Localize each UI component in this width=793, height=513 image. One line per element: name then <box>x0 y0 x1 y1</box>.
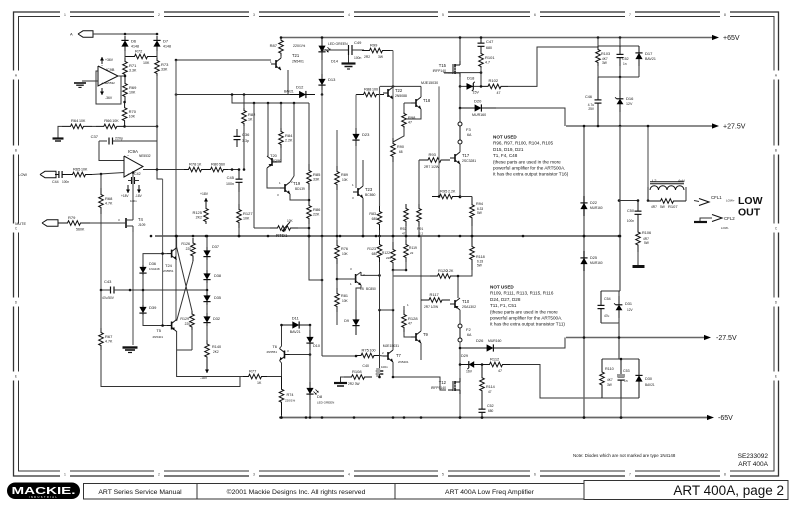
svg-text:(these parts are used in the m: (these parts are used in the more <box>490 309 558 314</box>
svg-text:100: 100 <box>372 87 378 91</box>
svg-text:D22: D22 <box>590 201 597 205</box>
svg-text:220: 220 <box>185 322 191 326</box>
svg-text:4uH: 4uH <box>678 179 685 183</box>
svg-text:T11, F1, C51: T11, F1, C51 <box>490 303 517 308</box>
svg-text:680: 680 <box>488 409 494 413</box>
svg-text:C52: C52 <box>487 404 494 408</box>
capacitor C46 <box>597 77 599 100</box>
svg-text:R94: R94 <box>476 202 483 206</box>
title block: copyright <box>197 484 395 500</box>
transistor T20 <box>271 158 273 166</box>
LED D14 <box>321 38 323 61</box>
svg-text:R90: R90 <box>397 145 404 149</box>
wire to +27.5 <box>508 47 598 86</box>
wire R118 to T10 emitter <box>458 270 472 276</box>
resistor R87 <box>279 38 284 57</box>
resistor R107 <box>648 199 686 204</box>
svg-text:D38: D38 <box>214 274 221 278</box>
wire T7 emitter <box>393 362 446 390</box>
cross wire A <box>177 247 192 311</box>
wire T18 emitter <box>406 109 421 119</box>
svg-text:T15: T15 <box>439 63 447 68</box>
svg-text:R102: R102 <box>489 78 499 83</box>
left bus <box>100 214 102 290</box>
svg-text:D15, D19, D21: D15, D19, D21 <box>493 147 524 152</box>
svg-text:-36V: -36V <box>105 96 113 100</box>
op-amp IC9A <box>124 156 143 177</box>
svg-text:R110: R110 <box>605 367 614 371</box>
bus to -27.5 region <box>583 336 586 339</box>
+65V rail <box>281 37 712 39</box>
-18V arrow <box>206 361 208 373</box>
svg-text:68: 68 <box>399 150 403 154</box>
svg-text:D26: D26 <box>476 338 484 343</box>
diode D39 <box>142 305 144 315</box>
svg-text:10K: 10K <box>143 61 150 65</box>
svg-text:R127: R127 <box>243 211 253 216</box>
wire T6 collector <box>280 325 282 349</box>
transistor T21 <box>275 60 277 68</box>
svg-text:R75: R75 <box>362 347 370 352</box>
svg-text:R71: R71 <box>129 63 137 68</box>
svg-text:10K: 10K <box>81 167 88 171</box>
svg-text:22: 22 <box>410 251 414 255</box>
svg-text:R76: R76 <box>341 247 348 251</box>
resistor R117 <box>421 298 450 303</box>
svg-text:MUR160: MUR160 <box>472 113 486 117</box>
bus crossings <box>175 235 177 237</box>
wire R73 column down <box>156 76 158 126</box>
resistor R102 <box>481 84 508 89</box>
resistor R129 <box>190 311 195 330</box>
svg-text:T18: T18 <box>423 98 431 103</box>
svg-text:C54: C54 <box>604 297 611 301</box>
svg-text:R68: R68 <box>105 196 113 201</box>
resistor R91 <box>417 204 422 226</box>
svg-text:BAV21: BAV21 <box>645 57 656 61</box>
svg-text:1: 1 <box>64 473 66 477</box>
svg-text:10K: 10K <box>129 115 136 119</box>
wire to CFL1 <box>694 201 699 202</box>
svg-text:4: 4 <box>348 13 350 17</box>
resistor R106 <box>636 225 641 252</box>
resistor R69 <box>123 78 128 102</box>
svg-text:16V: 16V <box>466 370 473 374</box>
wire <box>93 33 157 35</box>
svg-text:R73: R73 <box>161 62 169 67</box>
svg-text:R99: R99 <box>370 42 378 47</box>
transistor T5 <box>171 322 173 330</box>
svg-text:It has the extra output transi: It has the extra output transistor T16) <box>493 172 569 177</box>
svg-text:12V: 12V <box>626 102 633 106</box>
svg-text:T9: T9 <box>423 332 429 337</box>
svg-text:BC850: BC850 <box>366 287 376 291</box>
bus <box>336 130 338 166</box>
svg-text:INDUSTRIAL: INDUSTRIAL <box>29 495 58 499</box>
svg-text:2R2: 2R2 <box>364 55 370 59</box>
svg-text:6A: 6A <box>467 133 472 137</box>
svg-text:C46: C46 <box>585 95 592 99</box>
trimmer RTD1 <box>254 227 270 229</box>
svg-text:C50: C50 <box>627 209 634 213</box>
svg-text:R108: R108 <box>352 369 362 374</box>
svg-text:2K2: 2K2 <box>213 350 219 354</box>
svg-text:1n: 1n <box>624 379 628 383</box>
svg-text:T21: T21 <box>292 53 300 58</box>
svg-text:F2: F2 <box>466 327 471 332</box>
resistor R83 <box>379 86 381 206</box>
svg-text:33K: 33K <box>161 67 168 71</box>
svg-text:RTD1: RTD1 <box>276 233 288 238</box>
resistor R82 <box>243 93 246 96</box>
resistor R81 <box>335 288 340 312</box>
wire T20 <box>267 168 280 188</box>
resistor R77 <box>243 374 267 379</box>
svg-text:ART 400A Low Freq Amplifier: ART 400A Low Freq Amplifier <box>445 489 535 496</box>
svg-text:R87: R87 <box>270 43 278 48</box>
svg-text:47: 47 <box>498 369 502 373</box>
svg-text:D39: D39 <box>149 305 157 310</box>
wire <box>287 70 289 95</box>
svg-text:T20: T20 <box>270 153 278 158</box>
svg-text:D23: D23 <box>362 132 370 137</box>
svg-text:D12: D12 <box>296 85 304 90</box>
svg-text:5W: 5W <box>660 205 665 209</box>
resistor R128 <box>402 310 407 332</box>
svg-text:R122: R122 <box>382 251 390 255</box>
svg-text:L2: L2 <box>652 178 657 183</box>
svg-text:2.2K: 2.2K <box>446 269 454 273</box>
transistor T7 <box>387 352 389 360</box>
svg-text:R70: R70 <box>129 109 137 114</box>
svg-text:10K: 10K <box>243 216 250 220</box>
resistor R70 <box>122 102 127 126</box>
svg-text:(these parts are used in the m: (these parts are used in the more <box>493 159 561 164</box>
bus D22/D25 <box>583 126 585 418</box>
svg-text:R118: R118 <box>476 255 485 259</box>
svg-text:R88: R88 <box>364 86 372 91</box>
svg-text:T23: T23 <box>365 187 373 192</box>
diode D7 <box>156 36 158 51</box>
transistor T17 <box>454 154 456 162</box>
svg-text:R80: R80 <box>211 161 219 166</box>
svg-text:R82: R82 <box>248 112 256 117</box>
ground <box>637 252 639 265</box>
svg-text:D24, D27, D28: D24, D27, D28 <box>490 297 521 302</box>
svg-text:D10: D10 <box>313 344 320 348</box>
svg-text:NE5532: NE5532 <box>139 154 151 158</box>
wire R93 to R91 <box>418 160 420 204</box>
svg-text:2SC3281: 2SC3281 <box>462 159 476 163</box>
wire <box>118 75 125 77</box>
svg-text:IC9A: IC9A <box>128 149 138 154</box>
svg-text:OUT: OUT <box>738 207 761 219</box>
diode D17 <box>638 46 640 66</box>
svg-text:10K: 10K <box>287 219 294 223</box>
diode D6 <box>124 36 126 51</box>
svg-text:LOW: LOW <box>18 173 27 177</box>
output wire <box>143 169 184 171</box>
resistor R99 <box>362 48 390 53</box>
svg-text:47u: 47u <box>604 314 610 318</box>
+18V -18V supplies <box>127 185 129 193</box>
svg-text:LOW-: LOW- <box>721 226 729 230</box>
svg-text:©2001 Mackie Designs Inc. All: ©2001 Mackie Designs Inc. All rights res… <box>227 488 366 496</box>
svg-text:33K: 33K <box>313 177 320 181</box>
capacitor C43 <box>101 289 106 291</box>
svg-text:B: B <box>15 149 17 153</box>
svg-text:1K: 1K <box>248 117 253 121</box>
diode D22 <box>583 196 585 216</box>
resistor R119 <box>404 240 409 262</box>
wire T7 collector <box>392 310 394 350</box>
ground CFL2 <box>700 218 712 221</box>
wire <box>619 358 621 360</box>
svg-text:R93: R93 <box>429 152 437 157</box>
resistor R86 <box>307 200 312 224</box>
capacitor C45 <box>238 170 240 180</box>
svg-text:MUR160: MUR160 <box>590 261 603 265</box>
svg-text:2R2 3W: 2R2 3W <box>348 382 360 386</box>
svg-text:ART Series Service Manual: ART Series Service Manual <box>98 489 182 496</box>
svg-text:680: 680 <box>486 46 492 50</box>
svg-text:10K: 10K <box>342 178 349 182</box>
svg-text:MUR160: MUR160 <box>488 339 501 343</box>
diode column D37 D38 D35 D32 <box>206 236 208 247</box>
long wire <box>176 94 290 96</box>
svg-text:1n: 1n <box>623 62 627 66</box>
svg-text:2R7 1/2W: 2R7 1/2W <box>424 165 440 169</box>
wire T4 <box>132 173 134 215</box>
junction dots <box>280 416 283 419</box>
svg-text:2K2: 2K2 <box>196 215 202 219</box>
svg-text:7: 7 <box>629 13 631 17</box>
svg-text:220: 220 <box>386 256 391 260</box>
-65V rail <box>279 417 707 419</box>
resistor R79 <box>58 221 90 226</box>
wire T6 base <box>266 368 268 377</box>
title block: ART 400A, page 2 <box>584 481 788 500</box>
svg-text:C40: C40 <box>362 364 369 368</box>
svg-text:1: 1 <box>64 13 66 17</box>
svg-text:IRFP9140: IRFP9140 <box>431 386 446 390</box>
resistor R76 <box>335 240 340 264</box>
svg-text:3: 3 <box>253 473 255 477</box>
resistor R94 <box>470 197 475 227</box>
op-amp IC9B <box>98 66 118 86</box>
svg-text:NE5532: NE5532 <box>104 81 115 85</box>
svg-text:E: E <box>775 375 777 379</box>
svg-text:+27.5V: +27.5V <box>723 124 746 131</box>
transistor T15 (IRFP140) <box>452 64 454 74</box>
svg-text:2: 2 <box>158 13 160 17</box>
svg-text:47: 47 <box>408 321 412 325</box>
transistor T9 <box>415 333 417 341</box>
svg-text:T4: T4 <box>138 217 144 222</box>
svg-text:T1, F4, C48: T1, F4, C48 <box>493 153 518 158</box>
connector A <box>78 31 93 37</box>
svg-text:C44: C44 <box>52 180 59 184</box>
wire stubs <box>253 103 255 228</box>
resistor R123 <box>377 240 382 262</box>
svg-text:E: E <box>15 375 17 379</box>
bus right <box>619 126 621 291</box>
resistor R118 <box>470 236 475 270</box>
transistor T12 (IRFP9140) <box>452 381 454 391</box>
resistor R66 <box>96 124 125 129</box>
svg-text:J109: J109 <box>138 223 145 227</box>
wire T19 emitter <box>290 194 309 200</box>
svg-text:D36: D36 <box>149 262 156 266</box>
svg-text:C49: C49 <box>354 40 362 45</box>
svg-text:MJE15030: MJE15030 <box>421 81 438 85</box>
+18V supply <box>205 198 207 206</box>
+36V supply <box>101 57 103 64</box>
resistor R93 <box>419 158 450 163</box>
svg-text:R83: R83 <box>369 212 376 216</box>
svg-text:D7: D7 <box>163 39 169 44</box>
capacitor C49 <box>322 49 349 51</box>
svg-text:B: B <box>775 149 777 153</box>
svg-text:C45: C45 <box>227 175 235 180</box>
capacitor C50 <box>637 199 640 202</box>
svg-text:MJE15031: MJE15031 <box>383 344 399 348</box>
svg-text:6: 6 <box>534 13 536 17</box>
svg-text:R81: R81 <box>341 294 348 298</box>
svg-text:8: 8 <box>724 473 726 477</box>
resistor R112 <box>482 362 510 367</box>
svg-text:powerful amplifier for the ART: powerful amplifier for the ART500A. <box>493 166 565 171</box>
svg-text:-27.5V: -27.5V <box>716 335 737 342</box>
capacitor C54 / zener D31 block <box>601 290 620 292</box>
transistor T6 <box>284 351 286 359</box>
diode D13 <box>321 74 323 90</box>
svg-text:D18: D18 <box>467 76 475 81</box>
T5 emitter / R129 bottoms <box>177 331 243 377</box>
svg-text:R98: R98 <box>408 115 416 120</box>
wire <box>293 103 295 176</box>
diode D25 <box>583 251 585 271</box>
resistor R73 <box>155 58 160 76</box>
svg-text:BAV21: BAV21 <box>645 383 655 387</box>
svg-text:2N5401: 2N5401 <box>292 60 304 64</box>
svg-text:R106: R106 <box>642 231 651 235</box>
svg-text:680: 680 <box>372 217 378 221</box>
svg-text:R91: R91 <box>417 227 423 231</box>
title block: ART 400A Low Freq Amplifier <box>395 484 584 500</box>
+27.5V rail <box>566 125 712 127</box>
svg-text:7: 7 <box>629 473 631 477</box>
svg-text:5W: 5W <box>477 211 482 215</box>
svg-text:R96, R97, R100, R104, R105: R96, R97, R100, R104, R105 <box>493 141 553 146</box>
svg-text:220p: 220p <box>115 137 123 141</box>
svg-text:C43: C43 <box>104 279 112 284</box>
svg-text:D29: D29 <box>461 354 468 358</box>
resistor R92 <box>404 204 409 226</box>
JFET T4 <box>125 218 127 228</box>
zener D18 <box>460 85 481 87</box>
wire y310 <box>380 309 394 311</box>
svg-text:10K: 10K <box>112 119 119 123</box>
svg-text:100n: 100n <box>354 56 362 60</box>
resistor R75 <box>356 353 379 358</box>
capacitor C52 <box>481 404 483 409</box>
wire T21 base <box>176 59 271 61</box>
wire T15 gate <box>444 72 448 74</box>
svg-text:2SA1302: 2SA1302 <box>462 305 476 309</box>
svg-text:D32: D32 <box>213 317 220 321</box>
svg-text:3W: 3W <box>602 61 607 65</box>
svg-text:R92: R92 <box>400 227 406 231</box>
svg-text:2: 2 <box>158 473 160 477</box>
svg-text:D25: D25 <box>590 256 597 260</box>
wires <box>176 236 178 247</box>
svg-text:+18V: +18V <box>121 194 129 198</box>
svg-text:D11: D11 <box>292 316 300 321</box>
svg-text:CFL2: CFL2 <box>724 216 735 221</box>
svg-text:R95: R95 <box>440 188 448 193</box>
resistor R103 <box>596 46 601 66</box>
svg-text:R140: R140 <box>212 345 221 349</box>
svg-text:-18V: -18V <box>135 194 143 198</box>
resistor R72 <box>125 54 157 59</box>
svg-text:C37: C37 <box>91 134 99 139</box>
wire <box>420 236 422 331</box>
fuse F2 <box>458 324 462 328</box>
svg-text:D37: D37 <box>212 245 219 249</box>
corner wire from x324 <box>309 236 322 280</box>
svg-text:47u/50V: 47u/50V <box>102 296 115 300</box>
svg-text:T12: T12 <box>439 380 447 385</box>
svg-text:R64: R64 <box>71 118 79 123</box>
svg-text:ART 400A, page 2: ART 400A, page 2 <box>673 483 784 498</box>
svg-text:47: 47 <box>497 91 501 95</box>
svg-text:D8: D8 <box>317 394 323 399</box>
svg-text:It has the extra output transi: It has the extra output transistor T11) <box>490 322 565 327</box>
resistor R74 <box>279 377 284 416</box>
svg-text:R103: R103 <box>601 52 610 56</box>
svg-text:R125: R125 <box>192 210 202 215</box>
svg-text:R123: R123 <box>367 247 376 251</box>
svg-text:C36: C36 <box>242 132 250 137</box>
svg-text:SE233092: SE233092 <box>738 453 769 460</box>
fuse F3 <box>458 122 462 126</box>
svg-text:BC860: BC860 <box>365 193 375 197</box>
svg-text:10K: 10K <box>342 252 349 256</box>
svg-text:powerful amplifier for the ART: powerful amplifier for the ART500A. <box>490 316 562 321</box>
diode D10 <box>309 330 311 350</box>
output rail <box>155 235 619 237</box>
svg-text:100: 100 <box>370 348 376 352</box>
wire <box>392 85 394 88</box>
transistor T8 <box>355 274 357 283</box>
wire T6 emitter <box>280 361 282 377</box>
svg-text:R112: R112 <box>490 356 500 361</box>
svg-text:1N4448: 1N4448 <box>149 267 160 271</box>
title block: MACKIE logo <box>7 483 80 500</box>
svg-text:2N5401: 2N5401 <box>152 335 163 339</box>
svg-text:47: 47 <box>402 232 406 236</box>
ground <box>341 377 345 382</box>
resistor R85 <box>307 164 312 190</box>
resistor R114 <box>480 365 485 405</box>
svg-text:4.7K: 4.7K <box>105 339 113 343</box>
svg-text:BAV21: BAV21 <box>284 90 294 94</box>
diode D9 <box>355 310 357 335</box>
vertical bus <box>175 60 177 320</box>
svg-text:T22: T22 <box>395 88 403 93</box>
zener D29 <box>460 364 482 366</box>
